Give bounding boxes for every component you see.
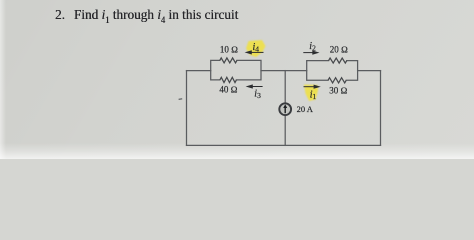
svg-text:30 Ω: 30 Ω xyxy=(329,86,347,96)
wire bottom xyxy=(187,144,381,146)
svg-text:i3: i3 xyxy=(254,89,261,101)
resistor 10ohm zigzag xyxy=(220,58,237,63)
resistor 20ohm zigzag xyxy=(329,58,347,63)
svg-text:10 Ω: 10 Ω xyxy=(220,44,238,54)
svg-text:i4: i4 xyxy=(253,42,260,54)
svg-text:40 Ω: 40 Ω xyxy=(219,85,237,95)
highlight over i4 xyxy=(246,40,266,57)
stray pen tick xyxy=(179,98,183,101)
wire right lead xyxy=(358,70,381,72)
wire middle vertical xyxy=(284,71,286,146)
wire left block frame xyxy=(211,60,261,80)
svg-text:20 Ω: 20 Ω xyxy=(330,45,348,55)
resistor 40ohm zigzag xyxy=(220,77,237,82)
svg-text:i1: i1 xyxy=(310,90,317,102)
highlight over i1 xyxy=(304,85,318,102)
current arrow i2 (right) xyxy=(303,52,313,54)
svg-text:20 A: 20 A xyxy=(297,104,314,114)
current arrow i4 (left) xyxy=(251,51,264,53)
wire left lead xyxy=(187,70,211,72)
svg-text:i2: i2 xyxy=(309,41,316,53)
current source 20A xyxy=(279,103,291,115)
resistor 30ohm zigzag xyxy=(328,78,346,83)
wire right outer xyxy=(380,71,382,146)
wire right block frame xyxy=(307,61,358,81)
current arrow i1 (right) xyxy=(304,86,315,88)
current arrow i3 (left) xyxy=(252,86,263,88)
problem title xyxy=(55,8,238,25)
wire left outer xyxy=(186,71,188,146)
wire middle bus xyxy=(261,70,307,72)
